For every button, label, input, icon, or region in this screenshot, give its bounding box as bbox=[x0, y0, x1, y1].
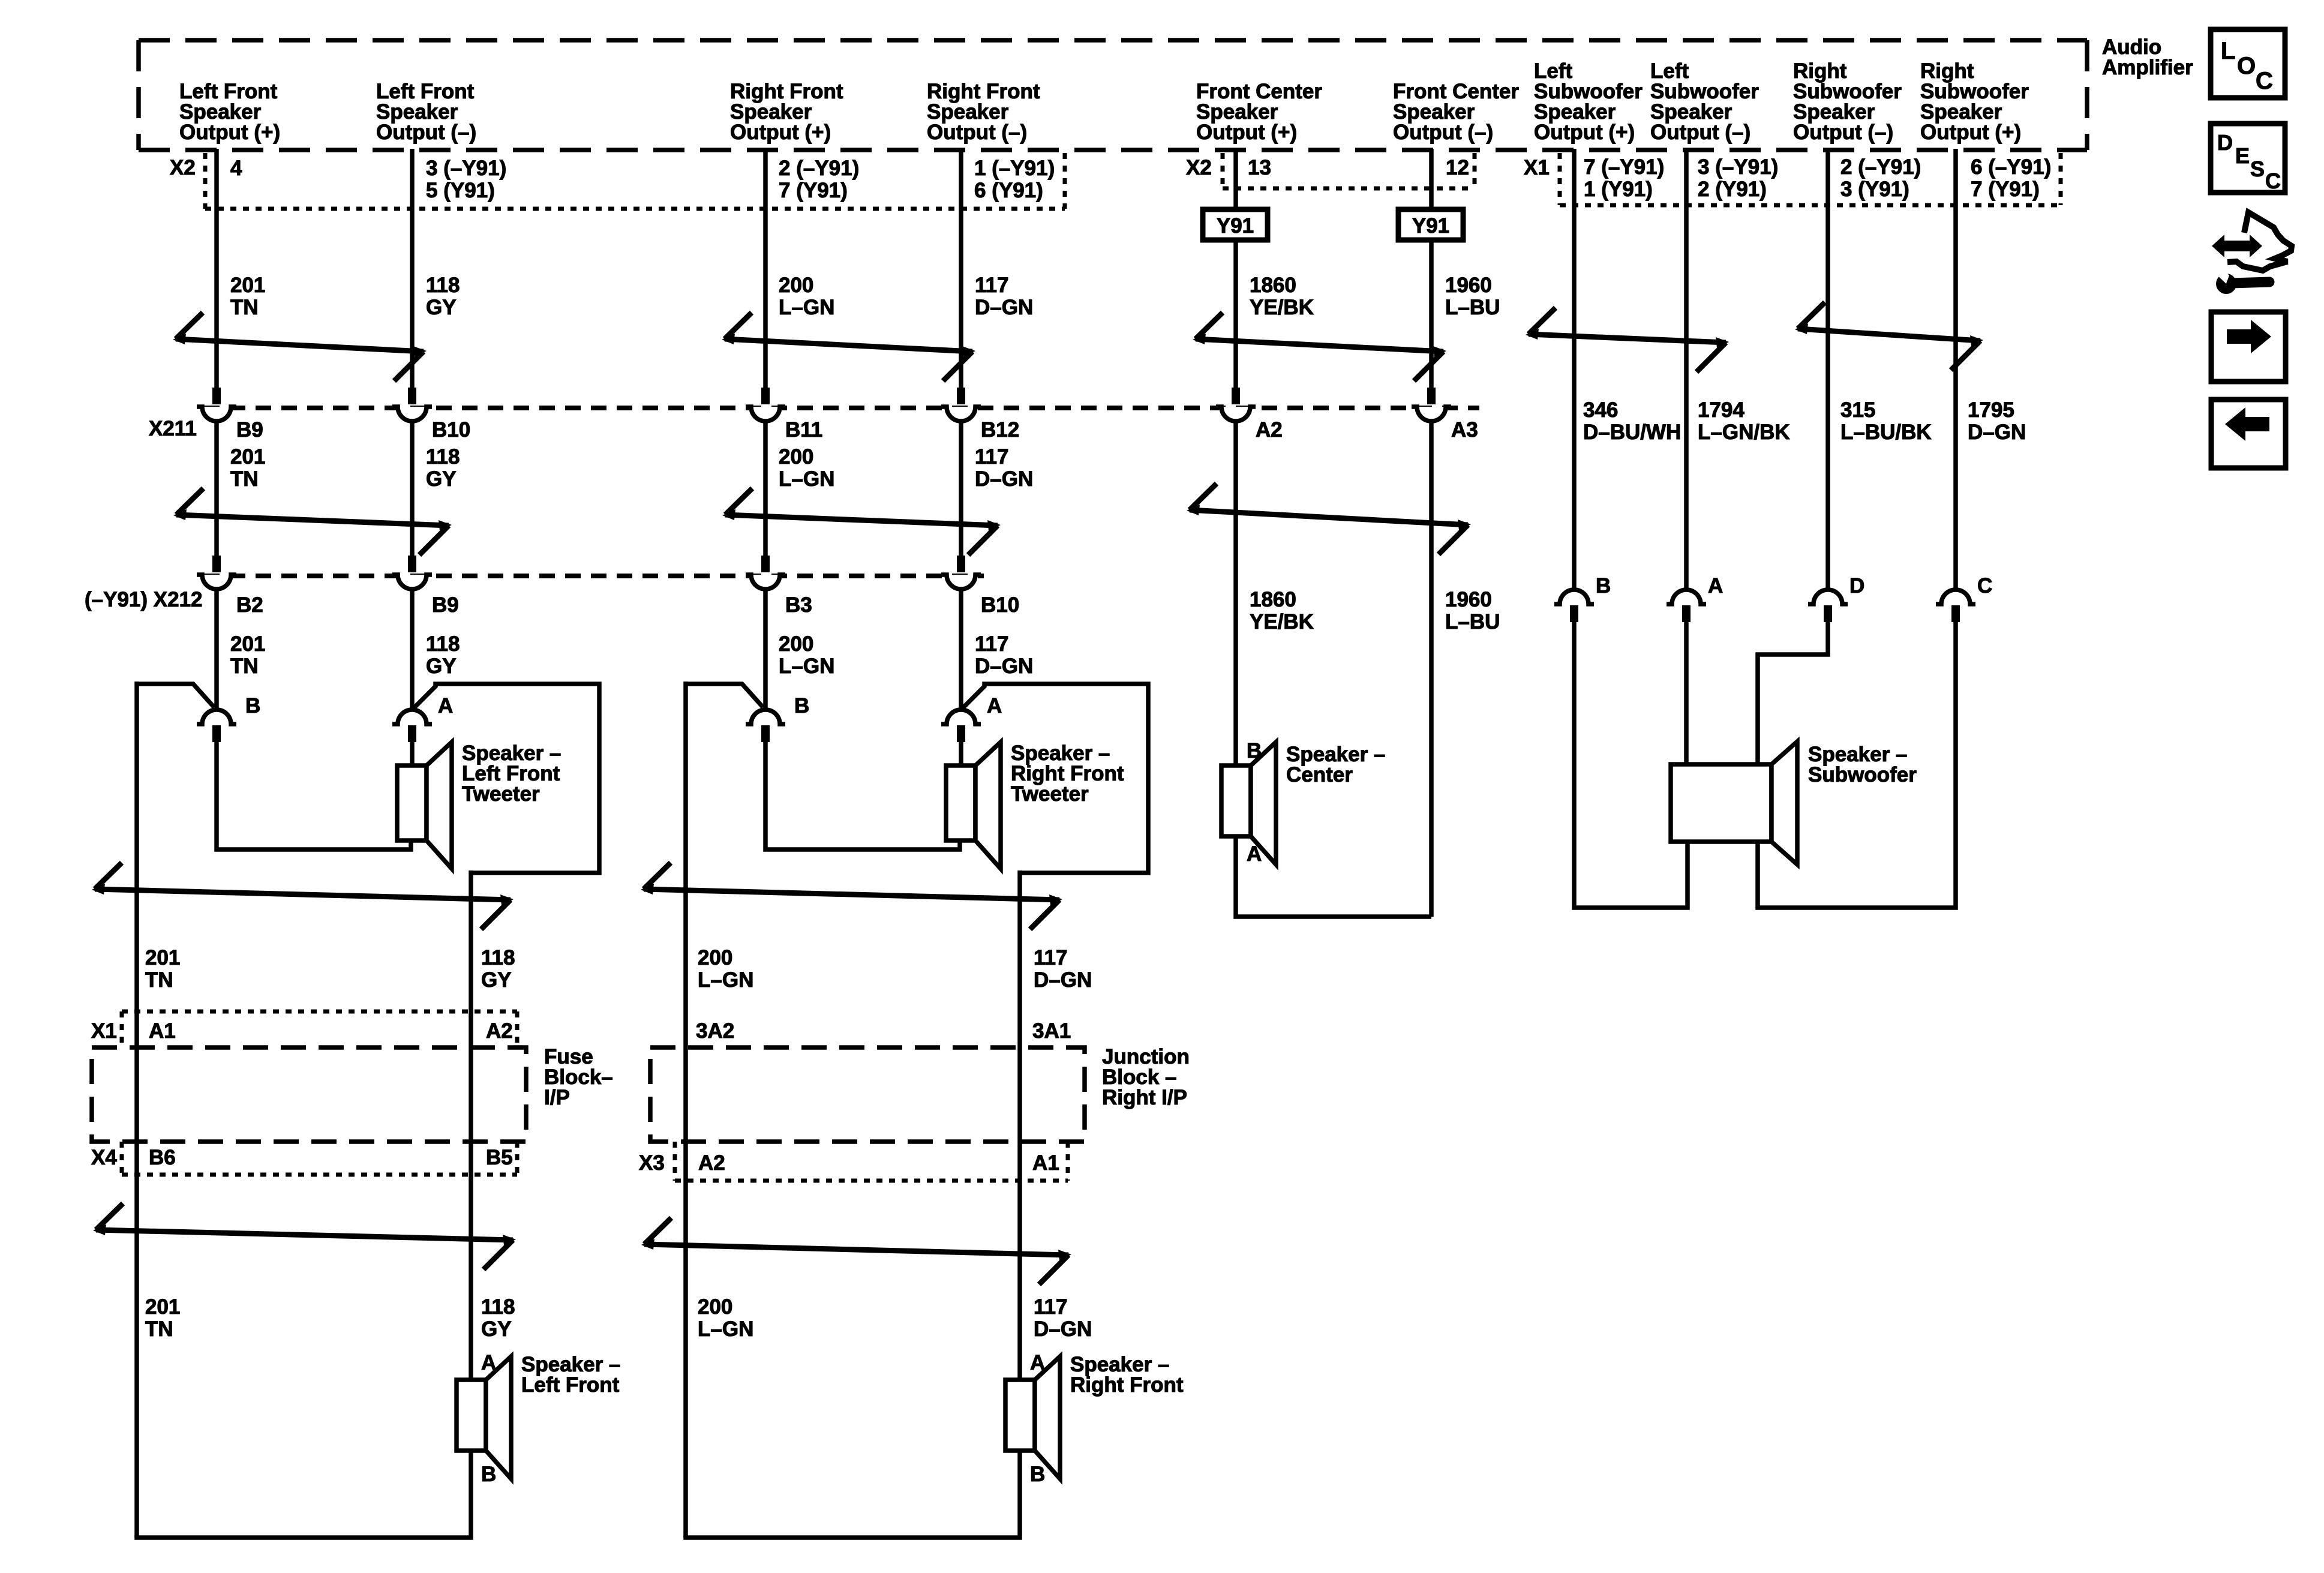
svg-text:L–GN: L–GN bbox=[779, 467, 834, 491]
speaker symbol Left Front tweeter bbox=[397, 742, 452, 869]
speaker symbol center bbox=[1221, 742, 1276, 864]
svg-text:D–GN: D–GN bbox=[1968, 421, 2026, 444]
svg-text:1795: 1795 bbox=[1968, 398, 2014, 422]
svg-text:A2: A2 bbox=[486, 1019, 513, 1043]
icon box arrow left bbox=[2211, 400, 2286, 468]
svg-text:GY: GY bbox=[426, 467, 457, 491]
wire break symbol row3 LF pair bbox=[92, 863, 514, 929]
svg-text:200: 200 bbox=[779, 632, 813, 656]
svg-text:B: B bbox=[245, 694, 260, 718]
svg-text:Output (+): Output (+) bbox=[1920, 121, 2021, 144]
connector X211 dashed row bbox=[204, 406, 1479, 410]
svg-text:13: 13 bbox=[1248, 156, 1271, 179]
svg-text:Right I/P: Right I/P bbox=[1102, 1086, 1187, 1109]
svg-text:A3: A3 bbox=[1451, 418, 1478, 442]
svg-text:B6: B6 bbox=[149, 1146, 176, 1169]
svg-text:7 (–Y91): 7 (–Y91) bbox=[1584, 155, 1664, 179]
wire 117 D-GN from amp pin 1/6 bbox=[959, 149, 963, 388]
svg-text:117: 117 bbox=[1034, 1295, 1067, 1319]
Fuse Block I/P dashed box bbox=[92, 1047, 526, 1142]
svg-text:Output (+): Output (+) bbox=[1196, 121, 1297, 144]
subwoofer connector D bbox=[1813, 590, 1842, 604]
svg-text:D–GN: D–GN bbox=[975, 655, 1033, 678]
svg-text:Output (+): Output (+) bbox=[1534, 121, 1635, 144]
svg-text:201: 201 bbox=[230, 445, 265, 469]
connector X212 terminal B3 bbox=[751, 575, 780, 589]
svg-text:B12: B12 bbox=[981, 418, 1019, 442]
svg-text:A1: A1 bbox=[1032, 1151, 1059, 1175]
svg-text:GY: GY bbox=[426, 296, 457, 319]
svg-text:GY: GY bbox=[481, 1317, 512, 1341]
Left Front tweeter right branch outline bbox=[414, 684, 599, 873]
svg-text:Output (–): Output (–) bbox=[1793, 121, 1893, 144]
svg-text:1860: 1860 bbox=[1250, 588, 1296, 611]
svg-text:7 (Y91): 7 (Y91) bbox=[779, 179, 848, 202]
wire 346 D-BU/WH from amp pin 7/1 bbox=[1572, 149, 1577, 590]
svg-text:201: 201 bbox=[145, 1295, 180, 1319]
svg-text:1960: 1960 bbox=[1445, 274, 1492, 297]
svg-text:B10: B10 bbox=[432, 418, 470, 442]
svg-text:12: 12 bbox=[1446, 156, 1469, 179]
svg-text:C: C bbox=[2256, 68, 2273, 94]
subwoofer connector A bbox=[1672, 590, 1701, 604]
wire 200 L-GN X212 to tweeter bbox=[763, 588, 768, 710]
svg-text:117: 117 bbox=[1034, 946, 1067, 969]
connector X2 (amplifier, left) dotted outline bbox=[205, 153, 1065, 209]
wire 117 D-GN X212 to tweeter bbox=[959, 588, 963, 710]
svg-text:I/P: I/P bbox=[544, 1086, 570, 1109]
svg-text:GY: GY bbox=[426, 655, 457, 678]
connector X211 terminal B11 bbox=[751, 407, 780, 421]
svg-text:L–BU: L–BU bbox=[1445, 296, 1500, 319]
connector X2 (amplifier, front center) dotted outline bbox=[1223, 153, 1475, 188]
connector X211 terminal B9 bbox=[202, 407, 231, 421]
svg-text:D–GN: D–GN bbox=[1034, 968, 1092, 992]
tweeter connector B bbox=[202, 710, 231, 724]
svg-text:L–BU: L–BU bbox=[1445, 610, 1500, 634]
wire break symbol row2 LF pair bbox=[173, 488, 452, 555]
svg-text:A: A bbox=[1247, 842, 1262, 866]
wire 1860 YE/BK X211 to center speaker bbox=[1233, 420, 1238, 766]
svg-text:X3: X3 bbox=[639, 1151, 665, 1175]
svg-text:Output (–): Output (–) bbox=[927, 121, 1027, 144]
wire break symbol row1 right subwoofer pair bbox=[1795, 302, 1983, 370]
svg-text:200: 200 bbox=[779, 274, 813, 297]
wire 201 TN X211 to X212 bbox=[214, 420, 219, 556]
svg-text:B: B bbox=[794, 694, 809, 718]
Right Front tweeter circuit branch wires bbox=[686, 684, 763, 707]
wire break symbol row4 LF pair bbox=[93, 1203, 516, 1269]
wire break symbol row1 left subwoofer pair bbox=[1526, 308, 1729, 372]
svg-text:Left Front: Left Front bbox=[521, 1373, 620, 1397]
svg-text:X2: X2 bbox=[170, 156, 196, 179]
svg-text:118: 118 bbox=[481, 1295, 515, 1319]
wire 201 TN X212 to tweeter bbox=[214, 588, 219, 710]
svg-text:3A2: 3A2 bbox=[696, 1019, 734, 1043]
svg-text:Output (–): Output (–) bbox=[376, 121, 476, 144]
svg-text:201: 201 bbox=[145, 946, 180, 969]
tweeter connector B bbox=[751, 710, 780, 724]
icon wrench and arrows bbox=[2212, 212, 2292, 294]
svg-text:346: 346 bbox=[1583, 398, 1618, 422]
option box Y91 (right) bbox=[1398, 209, 1463, 240]
wire break symbol row2 FC pair bbox=[1187, 484, 1471, 554]
svg-text:Amplifier: Amplifier bbox=[2102, 56, 2193, 79]
wire 117 D-GN X211 to X212 bbox=[959, 420, 963, 556]
tweeter inner wire B to speaker bbox=[765, 742, 960, 849]
wire 118 GY from amp pin 3/5 bbox=[410, 149, 415, 388]
wire 1795 to subwoofer (C loop) bbox=[1758, 622, 1956, 908]
connector X211 terminal B10 bbox=[398, 407, 427, 421]
svg-text:Tweeter: Tweeter bbox=[1011, 782, 1089, 806]
svg-text:B9: B9 bbox=[236, 418, 263, 442]
connector X3 (junction block) dotted row bbox=[675, 1142, 1068, 1181]
wire break symbol row1 LF pair bbox=[173, 313, 427, 381]
svg-text:Y91: Y91 bbox=[1217, 214, 1254, 238]
svg-text:X4: X4 bbox=[91, 1146, 117, 1169]
svg-text:TN: TN bbox=[230, 296, 259, 319]
svg-text:118: 118 bbox=[426, 632, 460, 656]
svg-text:X211: X211 bbox=[149, 417, 197, 440]
svg-text:B: B bbox=[481, 1463, 496, 1486]
wire 315 L-BU/BK from amp pin 2/3 bbox=[1825, 149, 1830, 590]
connector X211 terminal B12 bbox=[947, 407, 975, 421]
svg-text:Tweeter: Tweeter bbox=[462, 782, 540, 806]
svg-text:L: L bbox=[2221, 38, 2235, 64]
speaker symbol Left Front speaker bbox=[457, 1356, 511, 1479]
wire 346 to subwoofer (B loop) bbox=[1574, 622, 1688, 908]
wire break symbol row2 RF pair bbox=[722, 488, 1001, 555]
tweeter connector A bbox=[398, 710, 427, 724]
svg-text:L–GN: L–GN bbox=[779, 296, 834, 319]
svg-text:TN: TN bbox=[145, 1317, 173, 1341]
svg-text:E: E bbox=[2235, 143, 2250, 168]
svg-text:B: B bbox=[1596, 574, 1611, 598]
connector X1 (amplifier, subwoofer) dotted outline bbox=[1560, 153, 2061, 205]
svg-text:A2: A2 bbox=[698, 1151, 725, 1175]
speaker symbol Right Front speaker bbox=[1005, 1356, 1060, 1479]
svg-text:S: S bbox=[2250, 157, 2265, 181]
svg-text:118: 118 bbox=[426, 274, 460, 297]
svg-text:D–GN: D–GN bbox=[975, 296, 1033, 319]
wire branch Left Front (-) down bbox=[469, 870, 473, 1380]
svg-text:2 (Y91): 2 (Y91) bbox=[1698, 178, 1767, 201]
svg-text:201: 201 bbox=[230, 632, 265, 656]
svg-text:L–GN: L–GN bbox=[779, 655, 834, 678]
svg-text:YE/BK: YE/BK bbox=[1250, 296, 1314, 319]
svg-text:B11: B11 bbox=[785, 418, 822, 442]
Audio Amplifier component box (dashed) bbox=[139, 40, 2087, 150]
svg-text:Subwoofer: Subwoofer bbox=[1808, 763, 1917, 786]
wire loop to speaker Right Front B terminal bbox=[686, 1451, 1020, 1538]
svg-text:Center: Center bbox=[1286, 763, 1353, 786]
tweeter inner wire A to speaker bbox=[959, 742, 963, 766]
subwoofer connector C bbox=[1941, 590, 1970, 604]
Junction Block Right I/P dashed box bbox=[650, 1047, 1085, 1142]
svg-text:O: O bbox=[2237, 53, 2256, 79]
svg-text:1794: 1794 bbox=[1698, 398, 1744, 422]
svg-text:200: 200 bbox=[698, 1295, 732, 1319]
wire 118 GY X211 to X212 bbox=[410, 420, 415, 556]
wire 1794 L-GN/BK from amp pin 3/2 bbox=[1684, 149, 1689, 590]
svg-text:X1: X1 bbox=[91, 1019, 117, 1043]
svg-text:118: 118 bbox=[426, 445, 460, 469]
svg-text:201: 201 bbox=[230, 274, 265, 297]
wire break symbol row3 RF pair bbox=[641, 863, 1062, 929]
svg-text:Output (+): Output (+) bbox=[730, 121, 831, 144]
wire branch Right Front (+) down bbox=[683, 682, 688, 1538]
connector X212 terminal B9 bbox=[398, 575, 427, 589]
tweeter connector A bbox=[947, 710, 975, 724]
svg-text:TN: TN bbox=[230, 655, 259, 678]
svg-text:X1: X1 bbox=[1524, 156, 1550, 179]
svg-text:5 (Y91): 5 (Y91) bbox=[426, 179, 495, 202]
svg-text:117: 117 bbox=[975, 274, 1008, 297]
svg-text:TN: TN bbox=[145, 968, 173, 992]
speaker symbol subwoofer bbox=[1671, 742, 1797, 864]
wire 118 GY X212 to tweeter bbox=[410, 588, 415, 710]
svg-text:1 (Y91): 1 (Y91) bbox=[1584, 178, 1653, 201]
svg-text:200: 200 bbox=[698, 946, 732, 969]
svg-text:2 (–Y91): 2 (–Y91) bbox=[1840, 155, 1921, 179]
speaker symbol Right Front tweeter bbox=[946, 742, 1001, 869]
svg-text:C: C bbox=[1977, 574, 1992, 598]
svg-text:200: 200 bbox=[779, 445, 813, 469]
wire loop to speaker Left Front B terminal bbox=[137, 1451, 471, 1538]
svg-text:A: A bbox=[438, 694, 453, 718]
svg-text:3A1: 3A1 bbox=[1032, 1019, 1071, 1043]
svg-text:D–GN: D–GN bbox=[975, 467, 1033, 491]
connector X212 terminal B10 bbox=[947, 575, 975, 589]
wire 201 TN from amp pin 4 bbox=[214, 149, 219, 388]
svg-text:A1: A1 bbox=[149, 1019, 176, 1043]
svg-text:D–BU/WH: D–BU/WH bbox=[1583, 421, 1681, 444]
wire 1795 D-GN from amp pin 6/7 bbox=[1953, 149, 1958, 590]
svg-text:3 (–Y91): 3 (–Y91) bbox=[426, 157, 506, 180]
svg-text:D–GN: D–GN bbox=[1034, 1317, 1092, 1341]
svg-text:D: D bbox=[2217, 130, 2233, 155]
svg-text:4: 4 bbox=[230, 157, 242, 180]
wire branch Left Front (+) down bbox=[134, 682, 139, 1538]
Left Front tweeter circuit branch wires bbox=[137, 684, 214, 707]
icon box arrow right bbox=[2211, 312, 2286, 382]
svg-text:315: 315 bbox=[1840, 398, 1875, 422]
connector X211 terminal A2 bbox=[1221, 407, 1250, 421]
wire branch Right Front (-) down bbox=[1017, 870, 1022, 1380]
connector X212 dashed row bbox=[204, 574, 984, 578]
svg-text:L–GN: L–GN bbox=[698, 1317, 753, 1341]
svg-text:B: B bbox=[1030, 1463, 1045, 1486]
svg-text:X2: X2 bbox=[1186, 156, 1212, 179]
svg-text:117: 117 bbox=[975, 632, 1008, 656]
wire 1960 center speaker loop bbox=[1236, 834, 1431, 917]
svg-text:Right Front: Right Front bbox=[1070, 1373, 1184, 1397]
icon box LOC bbox=[2211, 29, 2285, 98]
tweeter inner wire A to speaker bbox=[410, 742, 415, 766]
svg-text:B10: B10 bbox=[981, 593, 1019, 617]
wire 200 L-GN X211 to X212 bbox=[763, 420, 768, 556]
subwoofer connector B bbox=[1560, 590, 1589, 604]
Right Front tweeter right branch outline bbox=[963, 684, 1148, 873]
svg-text:1 (–Y91): 1 (–Y91) bbox=[974, 157, 1055, 180]
svg-text:Y91: Y91 bbox=[1412, 214, 1449, 238]
svg-text:B3: B3 bbox=[785, 593, 812, 617]
wire 1860 YE/BK from amp pin 13 through Y91 bbox=[1233, 149, 1238, 209]
wire 315 to subwoofer (D elbow) bbox=[1758, 622, 1828, 764]
wire break symbol row1 FC pair bbox=[1193, 313, 1446, 381]
tweeter inner wire B to speaker bbox=[217, 742, 411, 849]
svg-text:A2: A2 bbox=[1256, 418, 1283, 442]
svg-text:C: C bbox=[2265, 169, 2281, 193]
option box Y91 (left) bbox=[1203, 209, 1268, 240]
svg-text:118: 118 bbox=[481, 946, 515, 969]
svg-text:B2: B2 bbox=[236, 593, 263, 617]
svg-text:Output (+): Output (+) bbox=[179, 121, 280, 144]
svg-text:6 (Y91): 6 (Y91) bbox=[974, 179, 1043, 202]
svg-text:D: D bbox=[1849, 574, 1864, 598]
connector X4 (fuse block) dotted row bbox=[122, 1142, 517, 1175]
svg-text:TN: TN bbox=[230, 467, 259, 491]
svg-text:3 (–Y91): 3 (–Y91) bbox=[1698, 155, 1778, 179]
svg-text:A: A bbox=[987, 694, 1002, 718]
wire break symbol row4 RF pair bbox=[641, 1218, 1071, 1284]
svg-text:117: 117 bbox=[975, 445, 1008, 469]
svg-text:B5: B5 bbox=[486, 1146, 513, 1169]
svg-text:L–GN/BK: L–GN/BK bbox=[1698, 421, 1790, 444]
svg-text:Output (–): Output (–) bbox=[1393, 121, 1493, 144]
wire 1960 L-BU from amp pin 12 through Y91 bbox=[1429, 149, 1434, 209]
svg-text:1860: 1860 bbox=[1250, 274, 1296, 297]
svg-text:L–BU/BK: L–BU/BK bbox=[1840, 421, 1932, 444]
svg-text:B9: B9 bbox=[432, 593, 459, 617]
wire 200 L-GN from amp pin 2/7 bbox=[763, 149, 768, 388]
connector X211 terminal A3 bbox=[1417, 407, 1446, 421]
connector X1 (fuse block) dotted row bbox=[122, 1011, 517, 1047]
svg-text:3 (Y91): 3 (Y91) bbox=[1840, 178, 1909, 201]
svg-text:1960: 1960 bbox=[1445, 588, 1492, 611]
connector X212 terminal B2 bbox=[202, 575, 231, 589]
svg-text:6 (–Y91): 6 (–Y91) bbox=[1971, 155, 2051, 179]
wire break symbol row1 RF pair bbox=[722, 313, 975, 381]
svg-text:L–GN: L–GN bbox=[698, 968, 753, 992]
svg-text:YE/BK: YE/BK bbox=[1250, 610, 1314, 634]
svg-text:2 (–Y91): 2 (–Y91) bbox=[779, 157, 859, 180]
svg-text:A: A bbox=[1708, 574, 1723, 598]
wire 1960 L-BU center speaker loop to X211 bbox=[1429, 420, 1434, 917]
svg-text:7 (Y91): 7 (Y91) bbox=[1971, 178, 2040, 201]
svg-text:(–Y91) X212: (–Y91) X212 bbox=[85, 588, 203, 611]
svg-text:Output (–): Output (–) bbox=[1650, 121, 1750, 144]
icon box DESC bbox=[2211, 124, 2285, 193]
svg-text:GY: GY bbox=[481, 968, 512, 992]
wire 1794 to subwoofer (A) bbox=[1684, 622, 1689, 764]
